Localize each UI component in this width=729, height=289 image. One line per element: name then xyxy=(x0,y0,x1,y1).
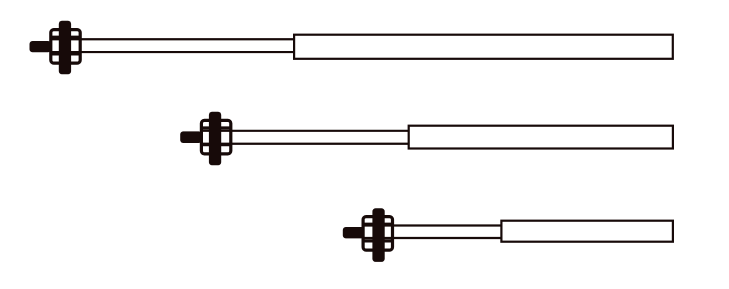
rod 1 outer tube xyxy=(294,35,673,59)
rod 3 handle pin xyxy=(372,208,384,262)
rod 3 bracket rung bottom xyxy=(363,239,392,242)
rod 2 shaft xyxy=(203,131,411,144)
rod 2 bracket frame xyxy=(201,120,230,153)
rod 1 shaft xyxy=(52,39,296,52)
rod 1 tip nub xyxy=(30,41,52,52)
rod 3 tip nub xyxy=(343,227,365,238)
rod 3 bracket rung top xyxy=(363,223,392,226)
rod 2 tip nub xyxy=(180,131,202,143)
rod 3 outer tube xyxy=(501,221,673,242)
rod 2 bracket rung bottom xyxy=(201,143,230,146)
rod 2 handle pin xyxy=(209,112,221,166)
rod 1 bracket rung bottom xyxy=(51,52,80,55)
rod 1 bracket rung top xyxy=(51,36,80,39)
rod 2 outer tube xyxy=(409,126,673,149)
rod 2 bracket rung top xyxy=(201,126,230,129)
rod 3 bracket frame xyxy=(363,217,392,251)
rod 1 bracket frame xyxy=(51,30,80,64)
rod 1 handle pin xyxy=(59,21,71,75)
rod 3 shaft xyxy=(364,226,503,239)
